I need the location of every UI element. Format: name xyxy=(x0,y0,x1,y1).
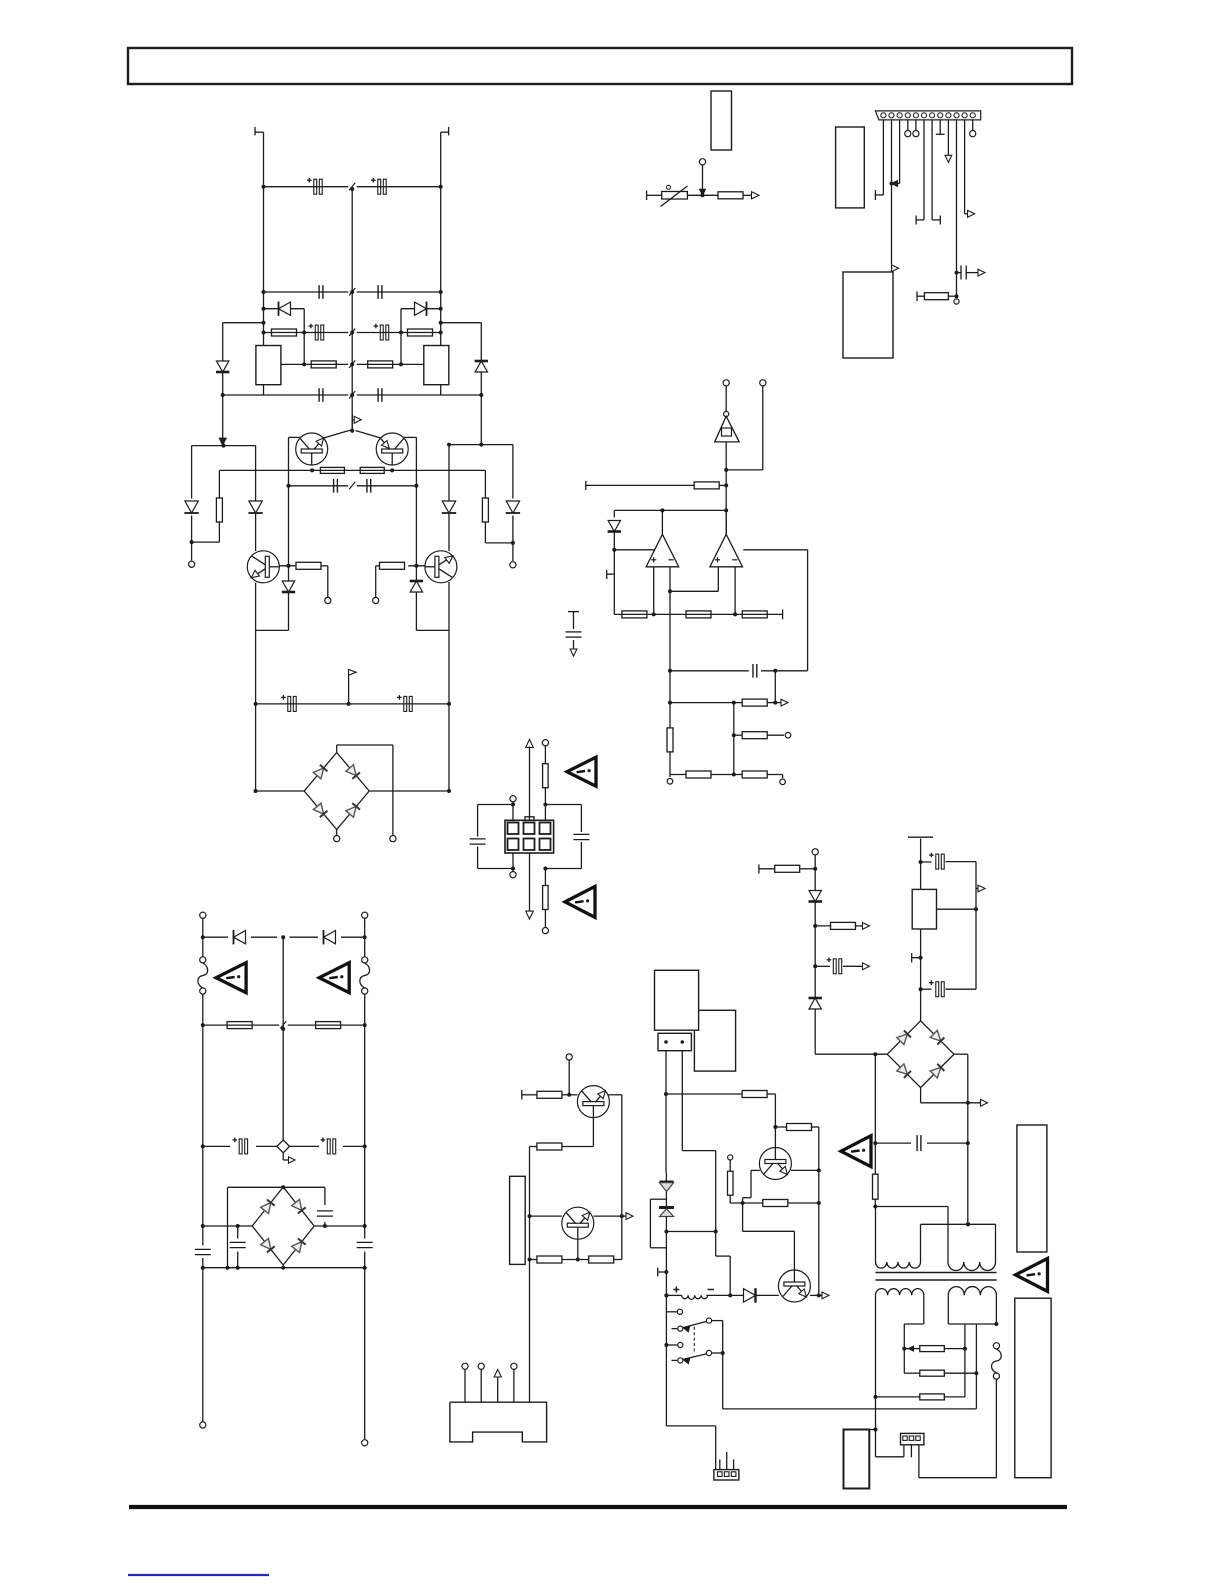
resistor R18 xyxy=(667,728,673,752)
wire c15 down xyxy=(774,671,776,703)
resistor R9 xyxy=(296,562,321,569)
terminal E6 xyxy=(334,836,340,842)
zener D17 xyxy=(809,998,821,1009)
terminal E13 xyxy=(510,872,516,878)
wire d16 down xyxy=(814,902,816,998)
capacitor C4 xyxy=(377,285,379,299)
capacitor C18 xyxy=(327,1139,330,1154)
wire left low rail xyxy=(255,630,257,791)
transistor Q6 xyxy=(562,1207,594,1239)
terminal tick2 xyxy=(606,570,608,579)
wire pin7 xyxy=(931,120,933,220)
box U9 xyxy=(844,1430,870,1489)
resistor R12 xyxy=(916,292,918,302)
wire d15 q8 xyxy=(756,1294,779,1296)
wire j2 bottom xyxy=(544,869,546,886)
wire d10 down xyxy=(613,532,615,614)
wire mid down2 xyxy=(669,703,671,729)
terminal T1 xyxy=(254,127,256,135)
resistor R29 xyxy=(589,1256,614,1263)
wire row703 xyxy=(670,702,743,704)
wire r36 down xyxy=(874,1199,876,1206)
wire pin12 xyxy=(972,120,974,131)
wire row1127 xyxy=(775,1126,787,1128)
wire br3 bottom xyxy=(920,1088,922,1103)
wire row774 xyxy=(670,774,686,776)
wire cap row 704 xyxy=(256,703,449,705)
wire row1259 xyxy=(530,1259,537,1261)
resistor R38 xyxy=(920,1370,945,1376)
connector J6 xyxy=(901,1433,924,1444)
wire hook left xyxy=(223,322,264,324)
capacitor C26 xyxy=(916,1135,918,1151)
wire pin6 xyxy=(923,120,925,220)
resistor R31 xyxy=(787,1124,812,1131)
wire br2 frame xyxy=(228,1186,325,1188)
box J4 xyxy=(658,1033,691,1050)
wire right rail xyxy=(440,132,442,395)
wire col733 xyxy=(733,703,735,775)
wire to arrow xyxy=(743,194,752,196)
warning triangle W6 xyxy=(841,1136,871,1167)
terminal tick5 xyxy=(908,836,933,838)
wire q3 emitter down xyxy=(255,583,257,631)
wire row2 xyxy=(264,291,349,293)
capacitor C5 xyxy=(315,325,318,340)
resistor R4 xyxy=(368,361,393,368)
terminal E9 xyxy=(667,779,673,785)
wire drv right outer xyxy=(512,445,514,499)
wire diode row right xyxy=(401,308,441,310)
wire row1229 xyxy=(666,1231,715,1233)
wire q1 to left xyxy=(289,436,300,438)
terminal E4 xyxy=(373,597,379,603)
wire q3 base row xyxy=(279,565,296,567)
capacitor C7 xyxy=(318,388,320,402)
buffer A1 xyxy=(724,411,729,416)
terminal E23 xyxy=(728,1155,733,1160)
wire q6 right down xyxy=(621,1216,623,1259)
terminal E3 xyxy=(325,597,331,603)
resistor R28 xyxy=(537,1256,562,1263)
resistor R14 xyxy=(622,611,647,618)
op-amp U4A xyxy=(661,510,663,534)
wire relay left top xyxy=(666,1311,677,1313)
wire q8 base path xyxy=(742,1203,744,1231)
wire bottom row xyxy=(203,1267,365,1269)
warning triangle W3 xyxy=(565,886,595,917)
wire j3 pins xyxy=(464,1370,466,1403)
terminal T2 xyxy=(448,127,450,135)
resistor R20 xyxy=(686,771,711,778)
resistor R35 xyxy=(831,922,856,929)
thermistor RT1 xyxy=(662,192,688,200)
wire row1224 xyxy=(921,1223,996,1225)
diode D12 xyxy=(324,931,336,944)
wire row1 xyxy=(264,186,349,188)
wire resv left xyxy=(218,470,220,498)
wire res row xyxy=(203,1024,279,1026)
terminal E12 xyxy=(510,796,516,802)
capacitor C20 xyxy=(230,1241,246,1243)
capacitor C8 xyxy=(377,388,379,402)
wire sec right col2 xyxy=(975,1324,977,1409)
title box xyxy=(128,48,1072,84)
wire reg right xyxy=(937,908,977,910)
wire q4 emitter down xyxy=(448,582,450,630)
wire relay bottom xyxy=(666,1425,715,1427)
bridge rectifier BR3 xyxy=(887,1021,954,1088)
wire resv left2 xyxy=(218,522,220,542)
box U5 xyxy=(510,1176,526,1264)
resistor R5 xyxy=(216,498,222,522)
wire diode row2 xyxy=(203,936,228,938)
terminal E5 xyxy=(390,836,396,842)
wire long down xyxy=(529,1260,531,1403)
resistor R11 xyxy=(718,192,743,199)
terminal E18 xyxy=(362,1440,368,1446)
transistor Q3 xyxy=(247,551,279,583)
wire r9 out xyxy=(321,565,328,567)
zener D16 xyxy=(809,891,821,902)
connector J2 body xyxy=(505,820,554,853)
wire sec left down xyxy=(875,1397,877,1457)
wire br1 bottom xyxy=(336,830,338,836)
wire r35 arrow xyxy=(855,925,862,927)
box U6 xyxy=(655,970,699,1030)
wire zener bypass xyxy=(650,1198,666,1200)
wire feedback left xyxy=(303,309,305,365)
wire j2 top xyxy=(544,746,546,764)
wire pin11 xyxy=(964,120,966,214)
wire diode row left xyxy=(264,308,305,310)
wire br3 right xyxy=(954,1053,968,1055)
terminal tick6 xyxy=(911,953,913,963)
zeners D13 D14 xyxy=(665,1172,667,1181)
wire pin8 xyxy=(939,120,941,134)
wire j6 pins xyxy=(903,1445,905,1450)
transistor Q1 xyxy=(296,433,328,465)
wire row735 xyxy=(734,734,743,736)
wire rail A down xyxy=(202,1268,204,1422)
wire br2 bottom leg xyxy=(282,1266,284,1268)
inductor L1 xyxy=(673,1289,679,1291)
wire step xyxy=(716,1255,731,1257)
zener D8 xyxy=(410,581,422,592)
bridge rectifier BR1 xyxy=(304,753,369,830)
resistor R34 xyxy=(775,865,800,872)
capacitor C3 xyxy=(318,285,320,299)
resistor R3 xyxy=(311,361,336,368)
arrow down A3 xyxy=(526,911,534,919)
wire row1397 xyxy=(876,1396,920,1398)
bridge rectifier BR2 xyxy=(252,1187,314,1265)
zener D7 xyxy=(282,581,294,592)
relay dashed link xyxy=(693,1327,695,1354)
resistor R16 xyxy=(742,611,767,618)
box U1 xyxy=(711,91,732,150)
resistor R15 xyxy=(686,611,711,618)
capacitor C10 xyxy=(366,479,368,493)
fuse F4 xyxy=(993,1343,999,1349)
wire pin1 xyxy=(882,120,884,195)
fuse F3 xyxy=(362,957,368,963)
wire row614 xyxy=(614,613,782,615)
capacitor C2 xyxy=(378,179,381,194)
arrow stub xyxy=(976,888,978,890)
resistor R24 xyxy=(227,1022,252,1029)
wire r30 right xyxy=(767,1093,776,1095)
diode D9 xyxy=(249,501,262,513)
wire opamp inputs xyxy=(653,567,655,615)
capacitor C12 xyxy=(404,696,407,711)
regulator U8 xyxy=(912,889,936,929)
wire cap row xyxy=(203,1145,230,1147)
flag arrow xyxy=(351,414,353,433)
wire row1203 xyxy=(730,1202,763,1204)
relay K2 xyxy=(424,346,449,385)
wire resv right2 xyxy=(484,522,486,543)
wire r27 left xyxy=(530,1146,537,1148)
gnd cap C14 xyxy=(568,611,579,613)
wire base q5 xyxy=(562,1094,577,1096)
capacitor C22 xyxy=(364,1226,366,1239)
wire r22 down xyxy=(544,788,546,821)
wire row1094 xyxy=(666,1093,742,1095)
wire pin5 xyxy=(915,120,917,131)
wire left loop top xyxy=(512,802,514,821)
wire br2 row xyxy=(203,1225,252,1227)
wire c20 leg xyxy=(237,1226,239,1239)
tall box U10 xyxy=(1017,1125,1047,1252)
wire long bottom xyxy=(723,1408,977,1410)
arrow up A4 xyxy=(494,1370,501,1378)
wire pin3 xyxy=(899,120,901,184)
capacitor C11 xyxy=(288,696,291,711)
wire bridge right xyxy=(369,790,449,792)
diode D1 xyxy=(279,302,291,315)
wire q7 left xyxy=(751,1169,760,1171)
tall box U11 xyxy=(1015,1298,1051,1478)
resistor R19 xyxy=(742,732,767,739)
resistor R32 xyxy=(728,1171,734,1195)
wire q5 coll xyxy=(608,1094,622,1096)
transistor Q4 xyxy=(425,551,457,583)
terminal tick4 xyxy=(657,1268,659,1277)
warning triangle W4 xyxy=(216,963,246,993)
resistor R2 xyxy=(408,329,433,336)
diode D15 xyxy=(744,1289,756,1302)
secondary winding S2 xyxy=(948,1287,996,1296)
wire res row485 xyxy=(585,481,587,490)
wire mid down xyxy=(669,614,671,702)
capacitor C23 xyxy=(833,959,836,974)
op-amp U4B xyxy=(725,510,727,534)
terminal E20 xyxy=(462,1363,468,1369)
zener D10 xyxy=(608,521,620,532)
varistor RV1 xyxy=(277,1140,290,1153)
wire r31 right xyxy=(811,1126,819,1128)
wire q bases xyxy=(324,431,349,439)
box U7 xyxy=(694,1010,735,1071)
wire q7 right xyxy=(791,1169,819,1171)
terminal above xyxy=(699,159,705,165)
connector J3 body xyxy=(450,1402,547,1442)
secondary winding S1 xyxy=(876,1289,924,1296)
zener D4 xyxy=(475,361,487,372)
wire row1206 xyxy=(875,1206,948,1208)
wire q4 base row xyxy=(408,565,425,567)
resistor R7 xyxy=(320,467,344,473)
wire bridge left xyxy=(256,790,305,792)
wire mid down3 xyxy=(669,752,671,775)
resistor R30 xyxy=(742,1091,767,1098)
wire row966 xyxy=(815,965,830,967)
diode D6 xyxy=(506,501,519,513)
terminal E10 xyxy=(780,779,786,785)
wire relay right xyxy=(712,1320,723,1322)
wire cap row 486 xyxy=(289,485,349,487)
wire j5 pins xyxy=(719,1460,721,1470)
wire br1 top xyxy=(336,745,338,753)
transistor Q5 xyxy=(577,1086,609,1118)
wire row1348 xyxy=(904,1348,920,1350)
node row right xyxy=(449,444,513,446)
terminal E2 xyxy=(510,562,516,568)
wire reg col xyxy=(920,929,922,989)
wire center mid xyxy=(282,937,284,1140)
footer rule xyxy=(129,1505,1067,1509)
resistor R37 xyxy=(920,1346,945,1352)
wire base q6 xyxy=(530,1215,562,1217)
wire drv rail R xyxy=(448,445,450,502)
capacitor C15 xyxy=(752,664,754,678)
wire to terms xyxy=(669,775,671,778)
diode D5 xyxy=(185,501,198,513)
wire c23 arrow xyxy=(843,965,862,967)
wire fuse down xyxy=(995,1379,997,1478)
transistor Q2 xyxy=(376,433,408,465)
terminal E21 xyxy=(478,1363,484,1369)
wire left rail xyxy=(263,132,265,395)
capacitor C19 xyxy=(317,1210,333,1212)
wire q6 coll xyxy=(594,1215,622,1217)
wire row4 xyxy=(281,363,348,365)
resistor R8 xyxy=(360,467,384,473)
flag F1 xyxy=(348,675,350,704)
terminal tops xyxy=(723,380,729,386)
terminal E15 xyxy=(200,912,206,918)
diode D9b xyxy=(442,501,455,513)
diode D2 xyxy=(415,302,427,315)
terminal E19 xyxy=(566,1054,572,1060)
wire r10 out xyxy=(376,565,380,567)
capacitor C16 xyxy=(470,838,486,840)
resistor R1 xyxy=(272,329,297,336)
wire hook right xyxy=(441,322,482,324)
wire right loop xyxy=(545,804,581,806)
wire pin9 xyxy=(947,120,949,156)
wire rails mid xyxy=(202,994,204,1226)
resistor R39 xyxy=(920,1394,945,1400)
wire left loop bottom xyxy=(477,847,479,869)
terminal E24 xyxy=(812,849,818,855)
resistor R13 xyxy=(694,482,719,489)
wire row1373 xyxy=(904,1372,920,1374)
warning triangle W1 xyxy=(567,757,596,786)
wire from tops xyxy=(725,386,727,411)
wire feedback right xyxy=(400,309,402,365)
node row left xyxy=(192,445,256,447)
wire q8 right xyxy=(810,1294,819,1296)
wire r34 node xyxy=(800,868,816,870)
relay S1 xyxy=(677,1309,682,1314)
wire bus470 xyxy=(219,469,485,471)
wire res868 xyxy=(758,865,760,874)
transistor Q8 xyxy=(778,1270,810,1302)
wire br3 top xyxy=(920,989,922,1021)
box U2 xyxy=(836,127,865,208)
core lines xyxy=(876,1272,997,1274)
wire pin2 xyxy=(891,120,893,264)
primary winding P2 xyxy=(947,1207,949,1263)
wire r32 down xyxy=(729,1195,731,1203)
wire right loop xyxy=(743,549,807,551)
wire pin4 xyxy=(907,120,909,131)
wire bus510 xyxy=(614,509,726,511)
wire center long xyxy=(529,747,531,912)
wire drv rail L xyxy=(255,446,257,502)
terminal E1 xyxy=(189,561,195,567)
capacitor C21 xyxy=(202,1226,204,1246)
diode D11 xyxy=(234,931,246,944)
terminal E16 xyxy=(362,912,368,918)
wire center rail xyxy=(351,189,353,433)
capacitor C25 xyxy=(921,988,932,990)
resistor R10 xyxy=(380,562,405,569)
arrow up A2 xyxy=(526,739,534,747)
wire drv left outer xyxy=(191,446,193,499)
wire cap row1143 xyxy=(875,1142,911,1144)
wire r23 down xyxy=(544,909,546,927)
footer blue underline xyxy=(128,1574,269,1576)
terminal tick xyxy=(646,191,648,201)
capacitor C13 xyxy=(957,272,962,274)
resistor R26 xyxy=(537,1091,562,1098)
wire u6 leg2 xyxy=(681,1051,683,1151)
transistor Q7 xyxy=(759,1148,791,1180)
wire row3 xyxy=(264,332,349,334)
wire q6 emit xyxy=(577,1239,579,1259)
resistor R23 xyxy=(543,886,549,910)
connector J1 body xyxy=(875,111,980,120)
box U3 xyxy=(843,272,893,358)
zener D3 xyxy=(217,361,229,372)
resistor R6 xyxy=(482,498,488,522)
capacitor C1 xyxy=(314,179,317,194)
resistor R22 xyxy=(543,764,549,788)
wire rails top xyxy=(202,918,204,957)
wire left col xyxy=(874,1054,876,1174)
wire row671 xyxy=(670,670,749,672)
fuse F2 xyxy=(200,957,206,963)
resistor R25 xyxy=(316,1022,341,1029)
capacitor C9 xyxy=(333,479,335,493)
wire resv right xyxy=(484,470,486,498)
warning triangle W5 xyxy=(319,963,349,993)
wire rail B down xyxy=(364,1268,366,1440)
terminal E17 xyxy=(200,1422,206,1428)
